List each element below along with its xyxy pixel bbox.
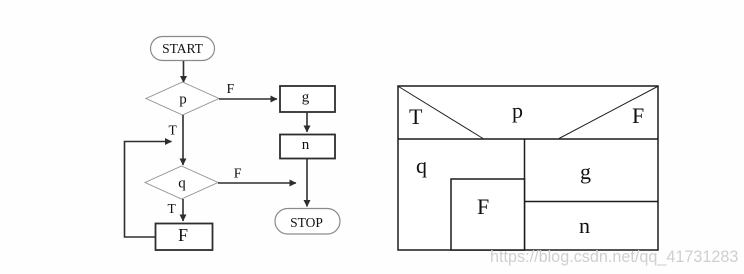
- NS-diagram vertical divider: [524, 139, 526, 250]
- wire n to STOP: [306, 159, 308, 207]
- process n: [280, 135, 335, 159]
- process g: [280, 86, 335, 112]
- wire loop back from F to p-q line: [125, 142, 172, 238]
- NS-diagram right diagonal: [559, 87, 658, 139]
- decision q: [145, 166, 218, 199]
- wire p to q: [182, 115, 184, 165]
- watermark: [490, 248, 738, 266]
- svg-text:T: T: [169, 123, 178, 138]
- svg-text:F: F: [234, 167, 242, 182]
- svg-text:n: n: [579, 213, 590, 238]
- NS inner label F: [477, 194, 489, 219]
- svg-text:F: F: [477, 194, 489, 219]
- NS label g: [580, 159, 591, 184]
- label T on p true branch: [169, 123, 178, 138]
- NS label F: [632, 103, 644, 128]
- svg-text:g: g: [302, 89, 310, 105]
- svg-text:T: T: [409, 104, 423, 129]
- svg-text:n: n: [302, 137, 310, 153]
- start terminal START: [151, 37, 215, 61]
- svg-text:p: p: [512, 98, 523, 123]
- svg-text:F: F: [227, 82, 235, 97]
- svg-text:START: START: [162, 41, 204, 56]
- svg-text:STOP: STOP: [290, 215, 323, 230]
- svg-text:q: q: [178, 176, 186, 192]
- process F: [156, 224, 213, 251]
- wire q to F box: [182, 199, 184, 221]
- NS-diagram outer box: [398, 86, 658, 250]
- svg-text:T: T: [168, 201, 177, 216]
- NS-diagram header bottom line: [398, 138, 658, 140]
- svg-text:q: q: [416, 153, 427, 178]
- label F on q false branch: [234, 167, 242, 182]
- wire g to n: [306, 112, 308, 132]
- svg-text:g: g: [580, 159, 591, 184]
- svg-text:https://blog.csdn.net/qq_41731: https://blog.csdn.net/qq_41731283: [490, 248, 738, 266]
- NS label q: [416, 153, 427, 178]
- NS-diagram left diagonal: [399, 87, 484, 139]
- svg-text:p: p: [179, 92, 187, 108]
- label F on p false branch: [227, 82, 235, 97]
- NS label p: [512, 98, 523, 123]
- NS inner F box: [451, 179, 525, 250]
- NS label T: [409, 104, 423, 129]
- wire p to g: [219, 98, 277, 100]
- stop terminal STOP: [275, 209, 340, 235]
- NS label n: [579, 213, 590, 238]
- decision p: [146, 82, 219, 115]
- label T on q true branch: [168, 201, 177, 216]
- NS-diagram g/n divider: [525, 201, 659, 203]
- svg-text:F: F: [178, 225, 188, 245]
- wire START to p: [183, 61, 185, 83]
- svg-text:F: F: [632, 103, 644, 128]
- wire q to join line: [218, 182, 296, 184]
